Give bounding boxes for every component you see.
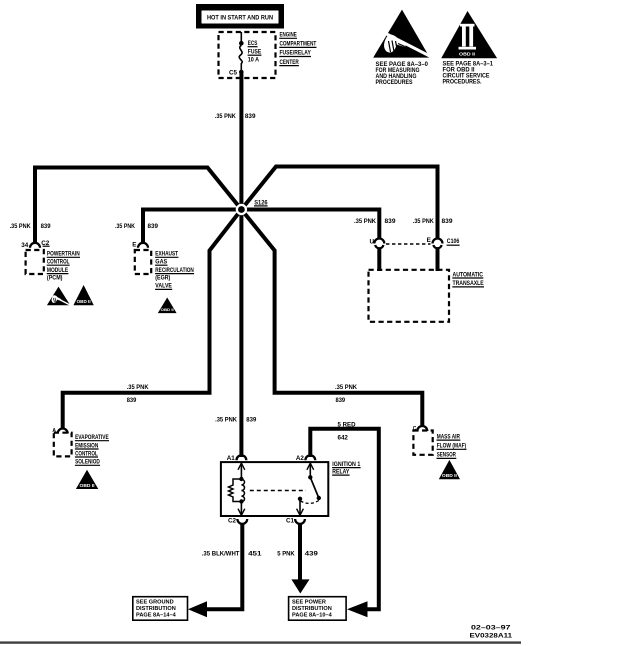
connector pin C1 (295, 519, 305, 524)
svg-text:.35 PNK: .35 PNK (127, 384, 149, 391)
switch blade (310, 477, 319, 498)
EVAP dashed box (54, 433, 72, 457)
svg-text:PAGE 8A–10–4: PAGE 8A–10–4 (292, 613, 333, 619)
junction dot (coil top) (239, 477, 243, 481)
label ENGINE COMPARTMENT FUSE/RELAY CENTER (279, 32, 317, 66)
connector pin C2 (237, 519, 247, 524)
svg-text:SEE GROUND: SEE GROUND (136, 600, 174, 606)
PCM dashed box (26, 250, 44, 274)
resistor (parallel with coil) (229, 479, 242, 502)
connector pin E (C106) (433, 239, 443, 244)
svg-text:ENGINE: ENGINE (280, 32, 298, 39)
dashed throw arc (301, 501, 319, 504)
svg-text:CONTROL: CONTROL (47, 259, 70, 266)
svg-text:AUTOMATIC: AUTOMATIC (453, 271, 484, 278)
svg-text:OBD II: OBD II (77, 299, 91, 304)
svg-text:PAGE 8A–14–4: PAGE 8A–14–4 (136, 613, 177, 619)
wire: splice to MAF sensor (.35 PNK 839) (241, 210, 422, 427)
svg-text:439: 439 (305, 550, 318, 557)
warning triangle: OBD II (below PCM) (73, 285, 93, 305)
label S126 (254, 199, 268, 206)
bottom rule (0, 641, 521, 643)
svg-text:C1: C1 (286, 518, 295, 525)
warning triangle: OBD II (below EGR) (158, 298, 177, 314)
switch contact dot (298, 497, 302, 501)
svg-text:ECS: ECS (248, 40, 258, 47)
relay coil (241, 479, 244, 501)
label C2 (PCM connector) (41, 240, 50, 247)
svg-text:SENSOR: SENSOR (437, 452, 456, 459)
label FUSE (248, 49, 262, 56)
junction dot C5 (239, 70, 244, 75)
svg-text:COMPARTMENT: COMPARTMENT (280, 41, 317, 48)
svg-text:839: 839 (246, 417, 256, 424)
warning triangle: OBD II (below EVAP) (76, 470, 98, 489)
dashed connector line U-E (386, 243, 431, 245)
connector pin E (EGR) (138, 243, 148, 248)
wire: 5 RED 642 (A2 to power distribution) (310, 429, 379, 610)
svg-text:839: 839 (442, 218, 453, 225)
wire: C2 to ground distribution (.35 BLK/WHT 451) (207, 523, 242, 609)
switch pivot dot (308, 475, 312, 479)
svg-text:GAS: GAS (155, 259, 167, 266)
wire coil to C2 with down arrow (238, 502, 245, 516)
connector pin A (EVAP) (58, 429, 68, 434)
svg-text:RELAY: RELAY (332, 468, 349, 475)
svg-text:10 A: 10 A (248, 57, 259, 64)
svg-text:839: 839 (41, 223, 51, 230)
wire: splice to transaxle pin E (.35 PNK 839) (241, 167, 437, 240)
label EVAPORATIVE EMISSION CONTROL SOLENIOD (75, 434, 109, 466)
power distribution box (289, 597, 347, 621)
svg-text:FUSE: FUSE (248, 49, 262, 56)
wire: splice to EGR (.35 PNK 839) (143, 210, 241, 244)
label C106 (447, 238, 460, 245)
wire contact to C1 with down arrow (297, 499, 304, 516)
svg-text:EMISSION: EMISSION (75, 442, 98, 449)
wire: splice to PCM (.35 PNK 839) (35, 168, 241, 244)
svg-text:OBD II: OBD II (80, 483, 95, 488)
EGR dashed box (135, 250, 151, 274)
label POWERTRAIN CONTROL MODULE (PCM) (47, 251, 80, 282)
svg-text:.35 PNK: .35 PNK (215, 417, 237, 424)
wire: C1 down (5 PNK 439) (298, 523, 302, 580)
svg-text:EV0328A11: EV0328A11 (470, 632, 513, 639)
svg-text:642: 642 (338, 435, 349, 442)
splice S126 (236, 204, 247, 215)
svg-text:FUSE/RELAY: FUSE/RELAY (280, 50, 312, 57)
label .35 PNK 839 (MAF wire) (335, 384, 357, 404)
label .35 PNK 839 (fuse wire) (215, 113, 256, 120)
svg-text:MODULE: MODULE (47, 267, 69, 274)
svg-text:PROCEDURES.: PROCEDURES. (443, 79, 482, 86)
svg-text:C2: C2 (228, 518, 237, 525)
svg-text:C5: C5 (229, 70, 238, 77)
wire: splice to transaxle pin U (.35 PNK 839) (241, 210, 379, 240)
svg-text:.35 PNK: .35 PNK (215, 113, 236, 120)
connector pin U (C106) (374, 239, 384, 244)
automatic transaxle dashed box (369, 270, 450, 322)
svg-text:EXHAUST: EXHAUST (155, 251, 178, 258)
junction dot above fuse (239, 41, 244, 46)
svg-text:PROCEDURES: PROCEDURES (376, 79, 413, 86)
svg-text:839: 839 (245, 113, 256, 120)
svg-text:451: 451 (248, 550, 262, 557)
svg-text:FLOW (MAF): FLOW (MAF) (437, 443, 467, 450)
svg-text:(PCM): (PCM) (47, 275, 63, 282)
svg-text:TRANSAXLE: TRANSAXLE (453, 280, 485, 287)
label .35 PNK 839 (EVAP wire) (127, 384, 149, 404)
wire: fuse C5 to splice S126 (.35 PNK 839) (239, 73, 243, 210)
svg-text:U: U (369, 238, 374, 245)
wire: splice to EVAP solenoid (.35 PNK 839) (63, 210, 242, 430)
label IGNITION 1 RELAY (332, 461, 361, 476)
svg-text:IGNITION 1: IGNITION 1 (332, 461, 360, 468)
label .35 PNK 839 (pin U wire) (354, 218, 396, 225)
warning triangle: OBD II service (8A-3-1) (441, 11, 497, 86)
svg-text:839: 839 (148, 223, 159, 230)
svg-text:.35 BLK/WHT: .35 BLK/WHT (202, 550, 241, 557)
svg-text:EVAPORATIVE: EVAPORATIVE (75, 434, 109, 441)
label .35 PNK 839 (pin E wire) (413, 218, 453, 225)
label MASS AIR FLOW (MAF) SENSOR (437, 433, 467, 458)
wire: fuse input lead (240, 32, 242, 43)
svg-text:SOLENIOD: SOLENIOD (75, 459, 100, 466)
label 5 RED 642 (338, 422, 356, 442)
warning triangle: ESD (below PCM) (47, 287, 71, 306)
svg-text:839: 839 (385, 218, 396, 225)
wire A1 to coil (240, 463, 242, 479)
svg-text:.35 PNK: .35 PNK (354, 218, 376, 225)
relay switch: arrow up at A2 (307, 463, 314, 470)
junction dot (coil bottom) (239, 499, 243, 503)
svg-text:02–03–97: 02–03–97 (471, 625, 511, 632)
label .35 BLK/WHT 451 (202, 550, 262, 557)
svg-text:C106: C106 (447, 238, 460, 245)
MAF dashed box (413, 431, 432, 455)
svg-text:HOT IN START AND RUN: HOT IN START AND RUN (207, 15, 273, 22)
ground distribution box (133, 597, 188, 621)
svg-text:A2: A2 (296, 455, 305, 462)
svg-text:.35 PNK: .35 PNK (115, 223, 135, 230)
warning triangle: ESD measuring/handling (8A-3-0) (373, 10, 432, 86)
footer plate id 02-03-97 EV0328A11 (470, 625, 513, 640)
connector pin A1 (237, 455, 247, 460)
arrow down to power distribution (291, 579, 309, 593)
svg-text:RECIRCULATION: RECIRCULATION (155, 267, 194, 274)
svg-text:DISTRIBUTION: DISTRIBUTION (136, 606, 176, 612)
svg-text:5 RED: 5 RED (338, 422, 356, 429)
label SEE POWER DISTRIBUTION PAGE 8A-10-4 (292, 600, 333, 619)
svg-text:CENTER: CENTER (280, 59, 299, 66)
svg-text:.35 PNK: .35 PNK (335, 384, 357, 391)
warning triangle: OBD II (below MAF) (439, 460, 460, 479)
svg-text:.35 PNK: .35 PNK (10, 223, 31, 230)
dashed actuation line coil-switch (250, 490, 306, 492)
label .35 PNK 839 (EGR wire) (115, 223, 158, 230)
label AUTOMATIC TRANSAXLE (452, 271, 484, 287)
svg-text:E: E (132, 241, 136, 248)
wire: pin E into transaxle (436, 248, 440, 271)
svg-text:OBD II: OBD II (161, 307, 174, 312)
svg-text:839: 839 (127, 397, 137, 404)
label SEE GROUND DISTRIBUTION PAGE 8A-14-4 (136, 600, 177, 619)
fuse ECS 10A symbol (239, 45, 242, 70)
fuse block dashed box (engine compartment fuse/relay center) (219, 32, 276, 78)
label .35 PNK 839 (relay A1 wire) (215, 417, 256, 424)
arrow into ground distribution box (188, 601, 207, 617)
svg-text:MASS AIR: MASS AIR (437, 433, 460, 440)
svg-text:.35 PNK: .35 PNK (413, 218, 434, 225)
svg-text:E: E (427, 237, 431, 244)
svg-text:(EGR): (EGR) (155, 275, 170, 282)
connector pin A2 (305, 455, 315, 460)
relay box (ignition 1 relay) (221, 462, 328, 516)
svg-text:POWERTRAIN: POWERTRAIN (47, 251, 80, 258)
switch blade end dot (317, 496, 321, 500)
connector pin C (MAF) (417, 426, 427, 431)
connector pin 34 C2 (PCM) (30, 243, 40, 248)
label EXHAUST GAS RECIRCULATION (EGR) VALVE (155, 251, 194, 290)
svg-text:A1: A1 (227, 455, 236, 462)
svg-text:VALVE: VALVE (155, 283, 172, 290)
wire: pin U into transaxle (377, 248, 381, 271)
wire: splice to relay A1 (.35 PNK 839) (239, 210, 243, 458)
svg-text:CONTROL: CONTROL (75, 450, 98, 457)
hot-in-start-and-run banner box (196, 4, 284, 29)
arrow into power distribution box (347, 601, 368, 617)
svg-text:5 PNK: 5 PNK (277, 550, 294, 557)
label ECS (248, 40, 258, 47)
svg-text:SEE POWER: SEE POWER (292, 600, 326, 606)
svg-text:OBD II: OBD II (459, 52, 475, 57)
label .35 PNK 839 (PCM wire) (10, 223, 51, 230)
wire A2 to switch pivot (309, 463, 311, 477)
svg-text:34: 34 (21, 242, 29, 249)
relay coil branch: arrow up at A1 (238, 463, 245, 470)
svg-text:OBD II: OBD II (442, 473, 457, 478)
svg-text:DISTRIBUTION: DISTRIBUTION (292, 606, 332, 612)
label 5 PNK 439 (277, 550, 318, 557)
svg-text:839: 839 (336, 397, 346, 404)
